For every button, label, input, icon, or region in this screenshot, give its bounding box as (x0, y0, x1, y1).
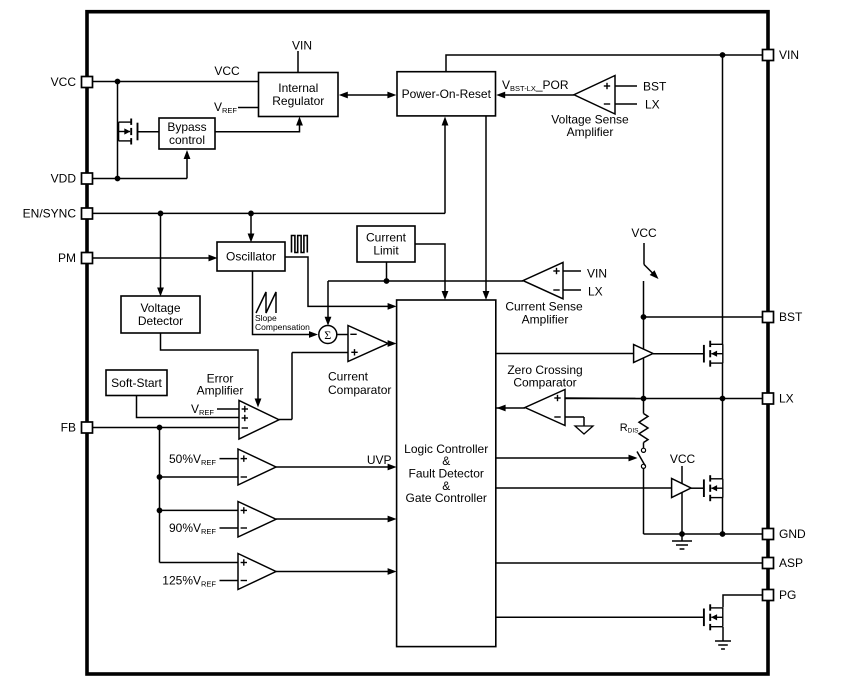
svg-text:Bypass: Bypass (167, 120, 206, 134)
svg-text:Limit: Limit (373, 244, 399, 258)
svg-text:Current: Current (328, 370, 369, 384)
svg-text:Power-On-Reset: Power-On-Reset (402, 87, 492, 101)
svg-text:BST: BST (643, 80, 667, 94)
svg-text:PM: PM (58, 251, 76, 265)
svg-text:VCC: VCC (631, 226, 657, 240)
svg-text:VCC: VCC (670, 452, 696, 466)
svg-text:Voltage: Voltage (140, 301, 180, 315)
svg-text:VCC: VCC (214, 64, 240, 78)
svg-text:Amplifier: Amplifier (522, 313, 569, 327)
svg-text:Current Sense: Current Sense (505, 300, 583, 314)
svg-text:Soft-Start: Soft-Start (111, 376, 162, 390)
svg-text:Comparator: Comparator (328, 383, 391, 397)
svg-text:BST: BST (779, 310, 803, 324)
svg-text:VCC: VCC (51, 75, 77, 89)
svg-text:ASP: ASP (779, 556, 803, 570)
svg-text:PG: PG (779, 588, 796, 602)
svg-text:Oscillator: Oscillator (226, 250, 276, 264)
svg-text:VIN: VIN (292, 39, 312, 53)
svg-text:EN/SYNC: EN/SYNC (23, 207, 77, 221)
svg-text:LX: LX (645, 98, 660, 112)
svg-text:Compensation: Compensation (255, 322, 310, 332)
svg-text:VIN: VIN (587, 267, 607, 281)
svg-text:FB: FB (61, 421, 76, 435)
svg-text:Gate Controller: Gate Controller (406, 491, 487, 505)
svg-text:UVP: UVP (367, 453, 392, 467)
svg-text:Internal: Internal (278, 81, 318, 95)
svg-text:GND: GND (779, 527, 806, 541)
svg-text:LX: LX (779, 392, 794, 406)
svg-text:Current: Current (366, 231, 407, 245)
svg-text:Σ: Σ (324, 328, 331, 342)
svg-text:Comparator: Comparator (513, 376, 576, 390)
svg-text:LX: LX (588, 285, 603, 299)
svg-text:Regulator: Regulator (272, 94, 324, 108)
svg-text:Amplifier: Amplifier (567, 125, 614, 139)
svg-text:control: control (169, 133, 205, 147)
svg-text:VDD: VDD (51, 172, 77, 186)
svg-text:Amplifier: Amplifier (197, 384, 244, 398)
svg-text:VIN: VIN (779, 48, 799, 62)
svg-text:Detector: Detector (138, 314, 183, 328)
